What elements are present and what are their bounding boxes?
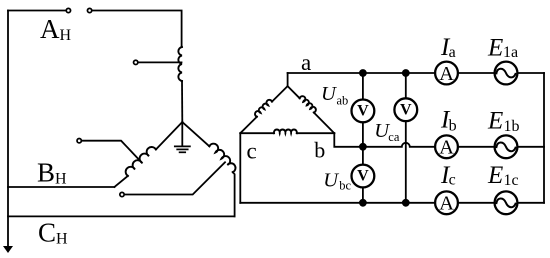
wire: row b middle with hop over col2 — [363, 143, 435, 147]
ammeter Ic — [435, 191, 458, 214]
junction node c / U_ca column — [402, 199, 410, 207]
svg-text:1b: 1b — [504, 118, 520, 135]
terminal circle tap A — [134, 60, 138, 64]
inductor winding C (diagonal to lower-right) — [182, 122, 209, 146]
terminal circle tap B — [77, 139, 81, 143]
svg-text:E: E — [487, 107, 503, 134]
wire: coil A bottom to star node — [181, 81, 183, 122]
wire: delta apex to top line — [287, 73, 289, 86]
inductor winding B (diagonal to lower-left) — [156, 122, 182, 150]
voltmeter U_ca — [394, 98, 417, 121]
ground — [175, 146, 190, 152]
wire: A_H line right segment — [93, 11, 182, 48]
wire: left bus vertical — [7, 11, 9, 248]
svg-text:E: E — [487, 162, 503, 189]
svg-text:c: c — [449, 172, 456, 189]
terminal circle tap C — [120, 192, 124, 196]
wire: tap C horizontal + diagonal — [125, 162, 225, 194]
wire: C_H horizontal line — [8, 215, 235, 217]
source E1c — [495, 191, 518, 214]
svg-text:V: V — [400, 101, 412, 118]
delta winding: bottom side c-b with coil — [240, 132, 274, 134]
ammeter Ib — [435, 135, 458, 158]
wire: sources to right bus — [517, 72, 544, 74]
svg-text:b: b — [449, 118, 457, 135]
svg-text:AH: AH — [40, 14, 72, 44]
svg-text:ca: ca — [388, 130, 400, 144]
junction node b / U_ab-U_bc column — [359, 143, 367, 151]
svg-text:A: A — [439, 193, 454, 215]
delta winding: right side a-b with coil — [288, 86, 300, 98]
svg-text:a: a — [449, 44, 456, 61]
wire: bottom rail (node c row) — [240, 202, 434, 204]
wire: B_H horizontal line — [8, 186, 114, 188]
svg-text:BH: BH — [37, 157, 67, 187]
svg-text:c: c — [247, 139, 257, 164]
svg-text:b: b — [314, 137, 325, 162]
source E1b — [495, 135, 518, 158]
svg-text:A: A — [439, 63, 454, 85]
terminal circle switch left — [66, 8, 70, 12]
ammeter Ia — [435, 62, 458, 85]
svg-text:a: a — [301, 50, 311, 75]
svg-text:A: A — [439, 137, 454, 159]
svg-text:1c: 1c — [504, 172, 519, 189]
svg-text:V: V — [357, 168, 369, 185]
voltmeter U_ab — [352, 100, 375, 123]
svg-text:E: E — [487, 34, 503, 61]
wire: tap B horizontal + diagonal — [82, 141, 142, 163]
wire: ground stem — [181, 122, 183, 146]
arrow at bottom of left bus — [3, 246, 13, 253]
wire: right bus vertical — [543, 73, 545, 203]
svg-text:U: U — [321, 83, 337, 105]
delta winding: left side c-a with coil — [240, 117, 257, 134]
wire: ammeter to source row a — [458, 72, 495, 74]
svg-text:1a: 1a — [503, 44, 518, 61]
wire: A_H line left segment — [8, 10, 65, 12]
junction node a / U_ca column — [402, 69, 410, 77]
source E1a — [495, 62, 518, 85]
inductor winding A (vertical coil) — [178, 47, 182, 81]
wire: column 2 (U_ca) — [405, 73, 407, 98]
junction node a / U_ab column — [359, 69, 367, 77]
wire: column 1 (U_ab / U_bc) — [362, 73, 364, 99]
wire: tap A horizontal — [138, 61, 181, 63]
svg-text:bc: bc — [339, 179, 351, 193]
svg-text:U: U — [323, 170, 339, 192]
wire: top line (node a row) — [288, 72, 435, 74]
junction node c / U_bc column — [359, 199, 367, 207]
wire: b vertex drop and row b left — [334, 133, 363, 147]
svg-text:ab: ab — [337, 94, 349, 108]
voltmeter U_bc — [352, 165, 375, 188]
wire: c vertex drop — [239, 133, 241, 203]
svg-text:V: V — [357, 103, 369, 120]
svg-text:CH: CH — [38, 218, 68, 248]
terminal circle switch right — [87, 8, 91, 12]
